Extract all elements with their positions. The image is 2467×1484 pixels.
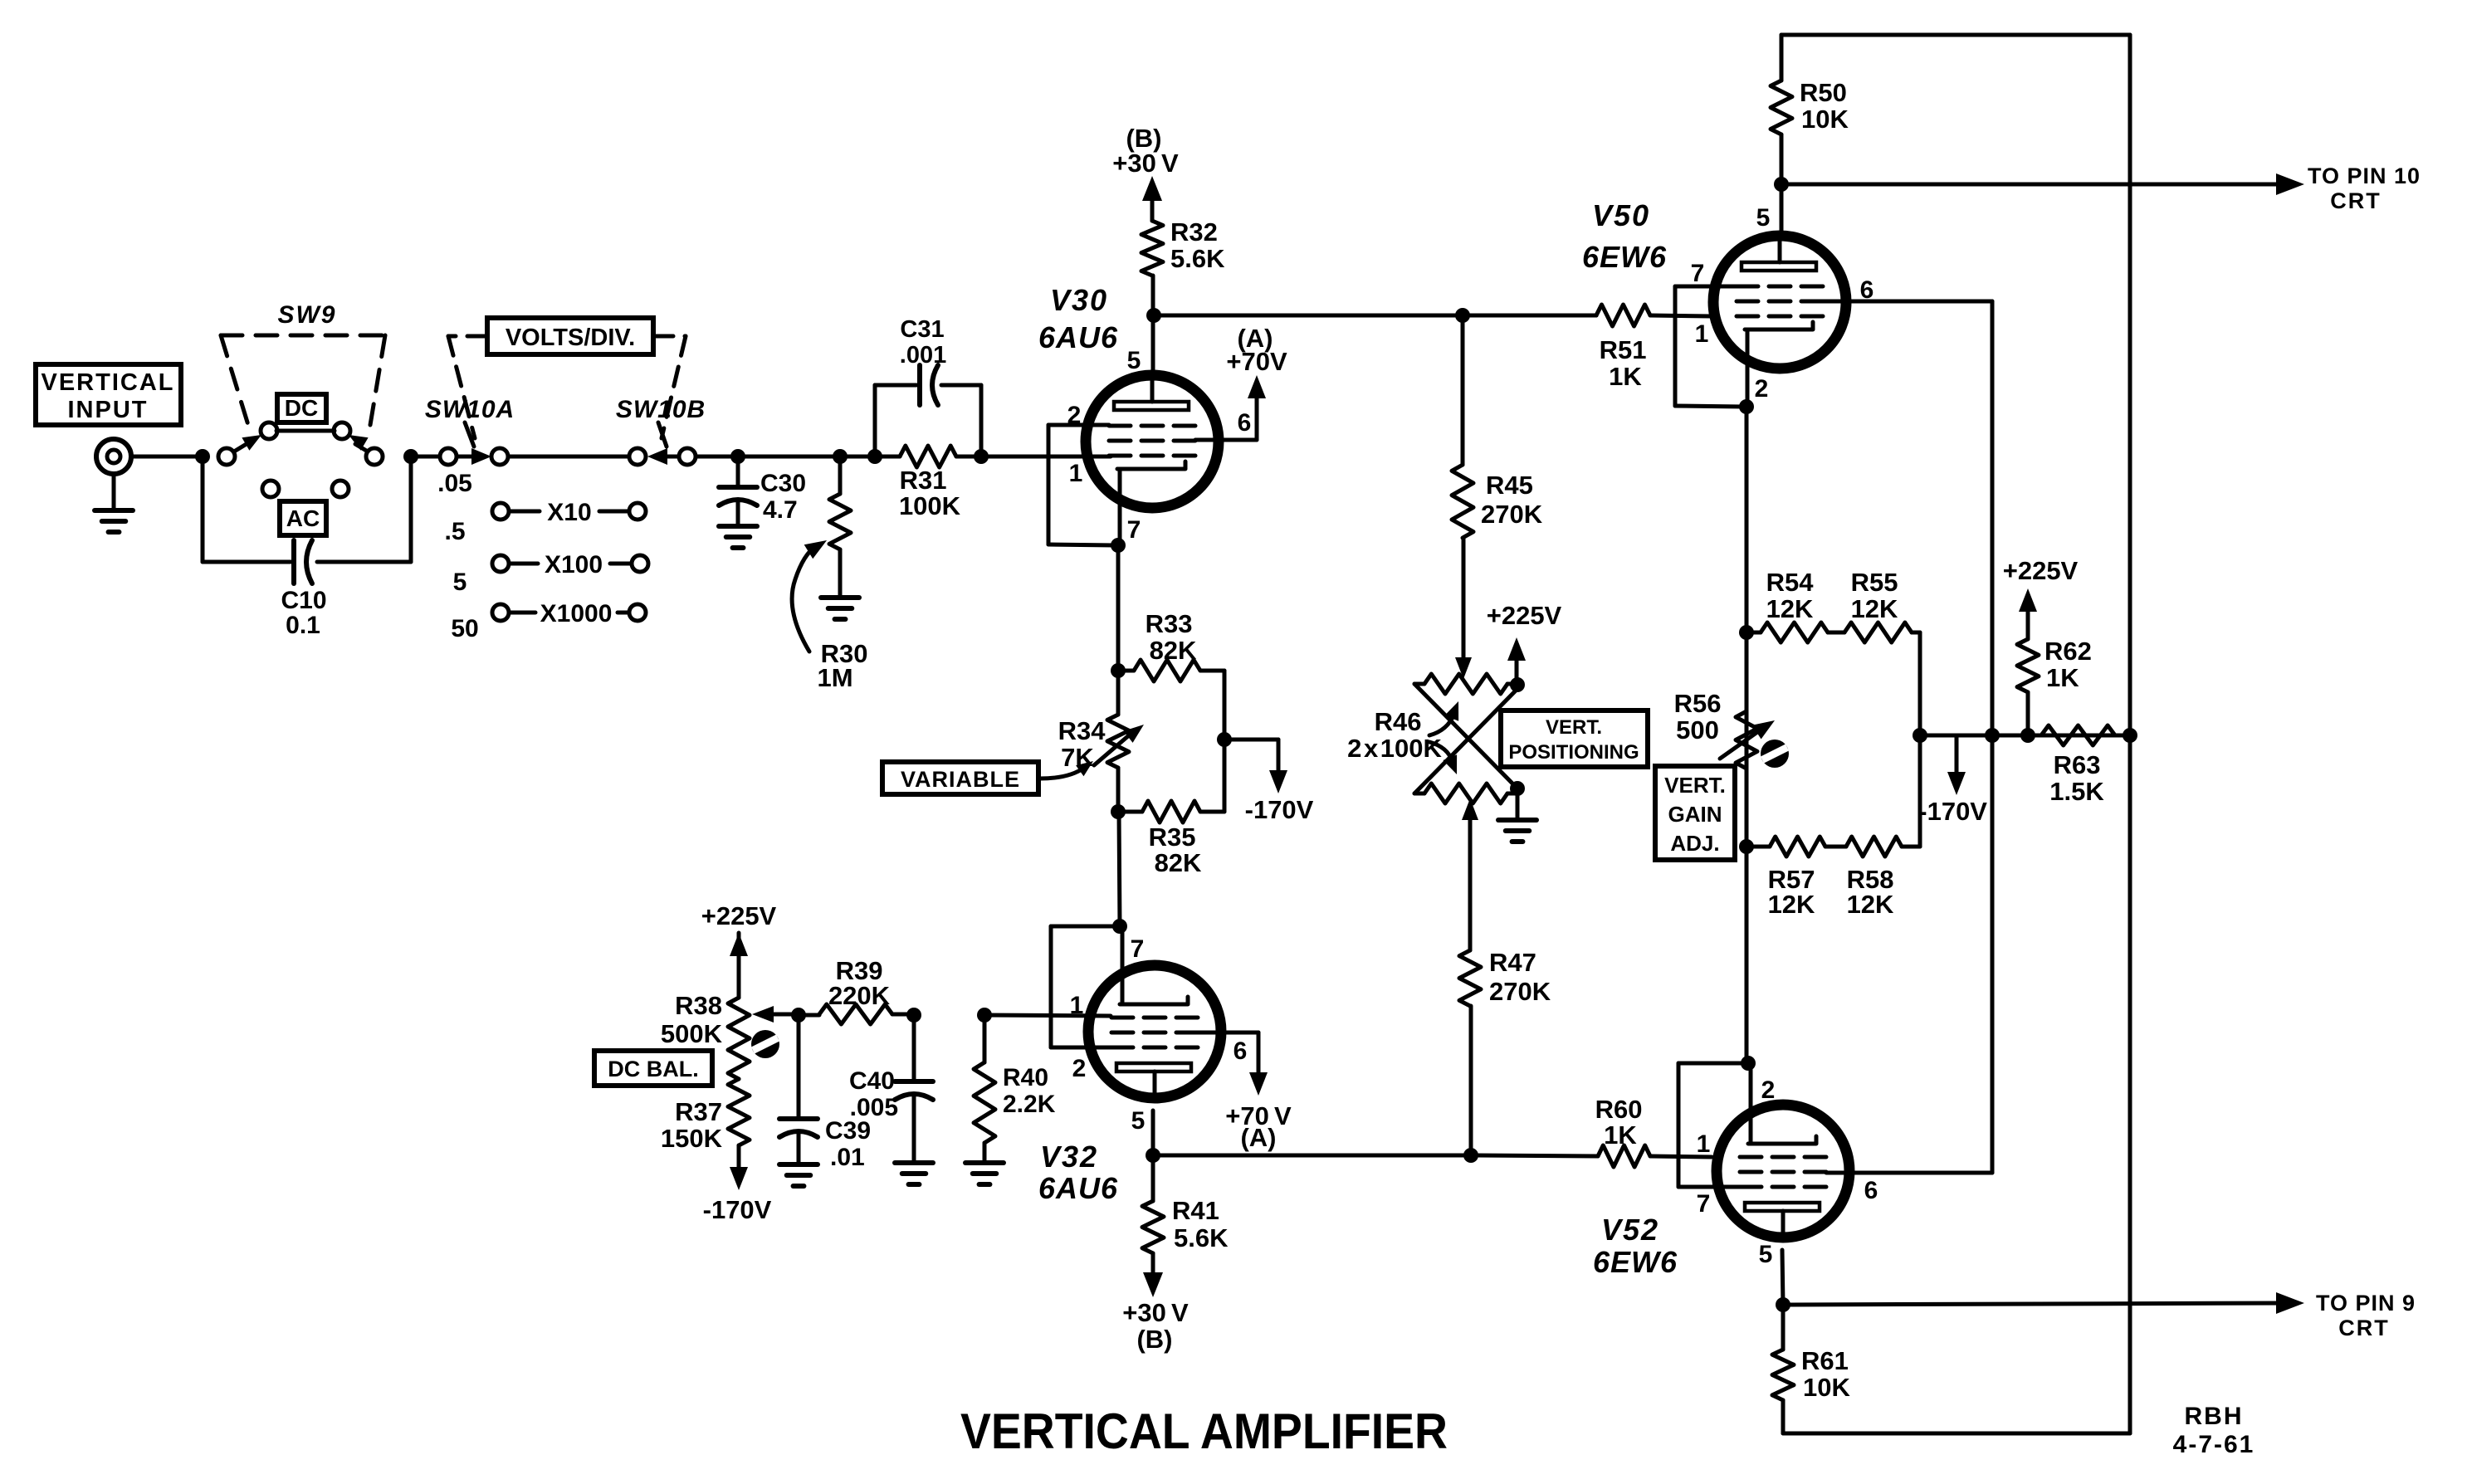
svg-text:R60: R60 (1595, 1095, 1643, 1124)
node R63 right on bus (2123, 728, 2137, 743)
svg-text:+30 V: +30 V (1112, 149, 1179, 178)
svg-text:VERT.: VERT. (1546, 716, 1602, 739)
switch SW10A contact left (440, 448, 457, 465)
svg-text:82K: 82K (1150, 636, 1197, 665)
svg-text:R56: R56 (1674, 689, 1722, 718)
R46 wiper arrows (1429, 714, 1454, 735)
wire to pin9 CRT (1783, 1303, 2284, 1305)
svg-text:C40: C40 (849, 1067, 895, 1095)
volts/div label box (487, 318, 653, 354)
svg-text:C30: C30 (760, 470, 806, 497)
svg-text:+70V: +70V (1226, 347, 1287, 376)
resistor R40 2.2K (983, 1015, 987, 1062)
vertical input label box (36, 364, 181, 425)
svg-text:5: 5 (1131, 1107, 1146, 1135)
svg-text:(B): (B) (1136, 1325, 1172, 1354)
capacitor C30 (736, 456, 740, 485)
DC label box (277, 394, 326, 422)
svg-text:1K: 1K (1604, 1120, 1637, 1150)
switch SW9 contact c (334, 422, 350, 439)
wire V52 plate to node (1782, 1250, 1783, 1305)
svg-text:5: 5 (1127, 347, 1141, 374)
wire SW10A to SW10B (509, 455, 628, 459)
svg-text:1: 1 (1697, 1130, 1711, 1158)
svg-text:SW10B: SW10B (616, 396, 706, 423)
svg-text:.5: .5 (444, 518, 465, 545)
svg-text:R31: R31 (900, 466, 947, 495)
screwdriver adjust R38 (751, 1030, 779, 1058)
svg-text:X100: X100 (545, 551, 603, 578)
wire DC path (276, 429, 335, 433)
svg-text:12K: 12K (1766, 594, 1814, 623)
ground below R46 (1516, 788, 1520, 818)
arrow +70V (A) lower (1249, 1072, 1268, 1096)
svg-text:5.6K: 5.6K (1170, 244, 1225, 273)
switch SW9 left arm (234, 440, 253, 452)
resistor R58 12K (1825, 845, 1846, 849)
node C31 right (974, 449, 989, 464)
svg-text:R47: R47 (1489, 948, 1536, 977)
resistor R56 500 variable (1736, 711, 1757, 769)
node R46 upper right (1510, 677, 1525, 692)
wire V32 node to R60 row (1153, 1154, 1471, 1158)
svg-text:R41: R41 (1172, 1196, 1219, 1225)
svg-text:6EW6: 6EW6 (1582, 240, 1667, 274)
node V52 pin2 top (1741, 1056, 1756, 1071)
tube V52 grid box (1678, 1062, 1745, 1066)
svg-text:2: 2 (1761, 1076, 1776, 1104)
svg-text:+30 V: +30 V (1122, 1298, 1189, 1327)
svg-text:220K: 220K (828, 981, 891, 1010)
svg-text:1M: 1M (817, 663, 852, 692)
wire R58 corner up (1918, 735, 1922, 847)
svg-text:CRT: CRT (2338, 1316, 2390, 1340)
capacitor C40 .005 (912, 1015, 916, 1079)
resistor R56 wiper arrow (1720, 730, 1760, 759)
arrow to +30V (B) top (1142, 176, 1162, 201)
svg-text:VERT.: VERT. (1664, 773, 1726, 798)
wire R35 node to V32 pin7 (1119, 812, 1120, 926)
wire V50 pin6 right (1823, 300, 1992, 304)
resistor R54 12K (1746, 631, 1761, 635)
switch SW10B pointer (658, 422, 667, 447)
capacitor C31 loop (873, 385, 877, 456)
svg-text:ADJ.: ADJ. (1670, 831, 1719, 856)
svg-text:R38: R38 (675, 991, 722, 1020)
resistor R38 wiper arrow (768, 1013, 797, 1017)
svg-text:R55: R55 (1851, 568, 1898, 597)
X100 contacts (492, 555, 509, 572)
switch SW10A pointer (465, 422, 474, 447)
tube V50 6EW6 (1713, 236, 1846, 369)
svg-text:2.2K: 2.2K (1003, 1091, 1056, 1118)
arrow +30V (B) bottom (1143, 1272, 1163, 1297)
svg-text:VERTICAL: VERTICAL (42, 369, 175, 396)
node SW9 right junction (403, 449, 418, 464)
node R45 top (1455, 308, 1470, 323)
svg-text:-170V: -170V (703, 1195, 772, 1224)
svg-text:R35: R35 (1149, 823, 1196, 852)
svg-text:.005: .005 (850, 1094, 898, 1121)
wire pin6 connector vertical (1991, 301, 1995, 1173)
wire R45 node to R51 (1463, 314, 1596, 318)
svg-text:R46: R46 (1375, 707, 1422, 736)
potentiometer R46 cross left-lower to right-upper (1414, 689, 1517, 793)
svg-text:GAIN: GAIN (1668, 802, 1722, 827)
svg-text:6: 6 (1238, 409, 1252, 437)
node R62 bottom (2020, 728, 2035, 743)
wire V30 plate row (1154, 314, 1463, 318)
wire to pin10 CRT (1781, 183, 2284, 187)
node R35 left (1111, 804, 1126, 819)
svg-text:5: 5 (1759, 1241, 1773, 1268)
wire R30 node to C31 node (840, 455, 875, 459)
svg-text:-170V: -170V (1918, 797, 1987, 826)
node R50 bottom (1774, 177, 1789, 192)
svg-text:+225V: +225V (2003, 556, 2079, 585)
svg-text:150K: 150K (661, 1124, 723, 1153)
arrow +225V mid (1515, 649, 1519, 684)
svg-text:C31: C31 (900, 316, 944, 343)
svg-text:270K: 270K (1489, 977, 1551, 1006)
svg-text:TO PIN 10: TO PIN 10 (2308, 164, 2421, 188)
svg-text:.001: .001 (900, 342, 946, 369)
svg-text:+225V: +225V (1487, 601, 1562, 630)
switch SW9 contact e (262, 481, 279, 497)
svg-text:VARIABLE: VARIABLE (901, 767, 1020, 792)
tube V50 grid box (1675, 285, 1737, 289)
resistor R35 82K (1118, 810, 1142, 814)
capacitor C39 .01 (797, 1015, 801, 1116)
svg-text:100K: 100K (899, 491, 961, 520)
svg-text:5: 5 (1756, 204, 1771, 232)
capacitor C10 (291, 540, 296, 583)
svg-text:2 x 100K: 2 x 100K (1347, 734, 1442, 763)
switch SW9 contact b (261, 422, 277, 439)
wire C31 node to V30 grid (981, 455, 1111, 459)
switch SW10B contact right (679, 448, 696, 465)
svg-text:6: 6 (1233, 1037, 1248, 1065)
svg-text:7: 7 (1691, 260, 1705, 287)
svg-text:6: 6 (1864, 1177, 1878, 1204)
node V50 cathode (1739, 399, 1754, 414)
wire C30 to R30 node (738, 455, 840, 459)
node mid -170V wire left (1913, 728, 1927, 743)
ground below C30 (719, 524, 757, 529)
tube V30 6AU6 (1086, 375, 1219, 508)
node C31 left (867, 449, 882, 464)
svg-text:4-7-61: 4-7-61 (2173, 1431, 2255, 1458)
resistor R38 500K pot (737, 933, 741, 998)
switch SW9 right arm (355, 444, 368, 452)
svg-text:1: 1 (1070, 992, 1084, 1019)
resistor R47 270K (1468, 810, 1473, 950)
svg-text:.01: .01 (830, 1144, 865, 1171)
arrow to pin9 (2276, 1292, 2304, 1314)
svg-text:12K: 12K (1768, 890, 1815, 919)
svg-text:500K: 500K (661, 1019, 723, 1048)
arrow -170V mid (1269, 770, 1287, 793)
wire right bus vertical (2128, 35, 2132, 1433)
svg-text:+225V: +225V (701, 901, 777, 930)
arrow R45 into R46 (1455, 657, 1472, 679)
svg-text:2: 2 (1072, 1055, 1087, 1082)
svg-text:10K: 10K (1803, 1373, 1850, 1402)
node C40 (906, 1008, 921, 1023)
svg-text:0.1: 0.1 (286, 612, 320, 639)
wire bottom bus (1783, 1432, 2130, 1436)
svg-text:V32: V32 (1040, 1140, 1098, 1174)
arrow to pin10 (2276, 173, 2304, 195)
wire V50 pin5 (1780, 184, 1784, 237)
svg-text:R40: R40 (1003, 1064, 1048, 1091)
wire -170V branch (1224, 738, 1278, 742)
switch SW10B contact left (629, 448, 646, 465)
wire mid to bus (1920, 734, 2130, 738)
ground below R40 (965, 1160, 1004, 1165)
svg-text:7: 7 (1131, 935, 1145, 963)
resistor R41 5.6K (1151, 1155, 1155, 1201)
svg-text:1.5K: 1.5K (2049, 777, 2104, 806)
ground at input connector (112, 474, 116, 508)
svg-text:R37: R37 (675, 1097, 722, 1126)
arrow +70V (A) upper (1248, 375, 1266, 398)
svg-text:R51: R51 (1600, 335, 1647, 364)
vert positioning label box (1501, 710, 1648, 767)
wire grid line to V32 (984, 1015, 1111, 1016)
svg-text:DC BAL.: DC BAL. (608, 1057, 699, 1081)
arrow -170V right (1955, 735, 1959, 783)
svg-text:R63: R63 (2054, 750, 2101, 779)
variable pointer arc (1040, 768, 1084, 779)
node R33 left (1111, 663, 1126, 678)
resistor R50 10K (1780, 35, 1784, 81)
node input junction (195, 449, 210, 464)
svg-text:R50: R50 (1800, 78, 1847, 107)
switch SW10A contact right (491, 448, 508, 465)
svg-text:4.7: 4.7 (763, 496, 798, 524)
wire cathode bus (1745, 407, 1749, 1063)
svg-text:12K: 12K (1851, 594, 1898, 623)
svg-text:VOLTS/DIV.: VOLTS/DIV. (506, 325, 635, 351)
svg-text:7: 7 (1697, 1190, 1711, 1218)
svg-text:SW9: SW9 (277, 301, 336, 329)
resistor R30 1M (838, 456, 843, 494)
node -170V branch (1217, 732, 1232, 747)
vert gain adj label box (1655, 766, 1735, 860)
wire R55 corner down (1918, 632, 1922, 735)
svg-text:TO PIN 9: TO PIN 9 (2316, 1291, 2416, 1316)
node R39 left / C39 (791, 1008, 806, 1023)
svg-text:50: 50 (451, 615, 478, 642)
arrow +225V left (730, 933, 748, 956)
node pin6 connector crossing (1985, 728, 2000, 743)
resistor R39 220K (799, 1013, 819, 1018)
dc bal label box (594, 1051, 712, 1086)
svg-text:INPUT: INPUT (68, 397, 149, 423)
wire cathode to R33 node (1116, 545, 1121, 666)
svg-text:SW10A: SW10A (425, 396, 515, 423)
svg-text:12K: 12K (1847, 890, 1894, 919)
svg-text:V52: V52 (1601, 1213, 1659, 1247)
svg-text:R33: R33 (1146, 609, 1193, 638)
svg-text:5: 5 (453, 569, 467, 596)
switch SW9 frame (dashed) (221, 334, 385, 338)
svg-text:R32: R32 (1170, 217, 1218, 247)
resistor R32 5.6K (1151, 276, 1155, 315)
svg-text:1K: 1K (2046, 663, 2079, 692)
node V32 pin7 (1112, 919, 1127, 934)
arrow +225V right (2019, 588, 2037, 612)
node R30 (833, 449, 848, 464)
svg-text:X10: X10 (547, 499, 591, 526)
tube V32 6AU6 (1088, 965, 1221, 1098)
node R47 bottom (1463, 1148, 1478, 1163)
arrow -170V left (730, 1167, 748, 1190)
node V30 cathode junction (1111, 538, 1126, 553)
svg-text:R45: R45 (1486, 471, 1533, 500)
wire V30 plate to R32 node (1151, 315, 1155, 375)
svg-text:X1000: X1000 (540, 600, 613, 627)
node R40 (977, 1008, 992, 1023)
svg-text:10K: 10K (1801, 105, 1849, 134)
wire V30 pin6 to +70V arrow (1195, 438, 1257, 442)
switch SW9 contact d (366, 448, 383, 465)
resistor R63 1.5K (2041, 725, 2115, 745)
arrow R47 into R46 (1462, 798, 1478, 820)
node R54 left (1739, 625, 1754, 640)
node R46 lower right (1510, 781, 1525, 796)
switch SW9 contact f (332, 481, 349, 497)
resistor R34 wiper arrow (1094, 735, 1129, 765)
ground below C40 (895, 1160, 933, 1165)
svg-text:DC: DC (285, 395, 318, 421)
svg-text:(A): (A) (1240, 1123, 1276, 1152)
resistor R37 150K (728, 1079, 750, 1145)
ground below R30 (821, 595, 859, 600)
svg-text:V30: V30 (1050, 283, 1108, 317)
wire junction to SW10A (411, 455, 440, 459)
svg-text:AC: AC (286, 505, 320, 531)
wire input to SW9 (131, 455, 196, 459)
switch SW10B wiper arrow (657, 455, 677, 459)
svg-text:V50: V50 (1592, 198, 1650, 232)
svg-text:7: 7 (1127, 516, 1141, 544)
wire AC loop left (201, 456, 205, 562)
X1000 contacts (492, 604, 509, 621)
tube V52 6EW6 (1717, 1105, 1849, 1237)
svg-text:1: 1 (1695, 320, 1709, 348)
X10 contacts (492, 503, 509, 520)
svg-text:R61: R61 (1801, 1346, 1849, 1375)
svg-text:R34: R34 (1058, 716, 1106, 745)
svg-text:-170V: -170V (1245, 795, 1314, 824)
svg-text:C10: C10 (281, 587, 326, 614)
node C30 (730, 449, 745, 464)
volts/div bracket left (dashed) (448, 334, 487, 339)
svg-text:2: 2 (1755, 375, 1769, 403)
node V52 pin5 (1776, 1297, 1790, 1312)
svg-text:5.6K: 5.6K (1174, 1223, 1229, 1252)
resistor R31 100K (875, 455, 900, 459)
svg-text:R54: R54 (1766, 568, 1815, 597)
svg-text:1K: 1K (1609, 362, 1642, 391)
resistor R45 270K (1461, 315, 1465, 465)
resistor R57 12K (1746, 845, 1770, 849)
volts/div bracket right (dashed) (653, 334, 686, 339)
svg-text:POSITIONING: POSITIONING (1508, 741, 1639, 764)
switch SW9 contact a (218, 448, 235, 465)
wire V52 pin6 right (1826, 1171, 1992, 1175)
resistor R33 82K (1118, 669, 1134, 673)
wire V32 plate to node (1151, 1111, 1155, 1155)
wire SW10B to C30 node (696, 455, 738, 459)
resistor R34 7K variable (1116, 671, 1121, 715)
resistor R61 10K (1781, 1305, 1786, 1350)
screwdriver adjust R56 (1761, 740, 1789, 768)
svg-text:270K: 270K (1481, 500, 1543, 529)
svg-text:VERTICAL AMPLIFIER: VERTICAL AMPLIFIER (960, 1403, 1448, 1459)
svg-text:6AU6: 6AU6 (1038, 1171, 1118, 1205)
switch SW10A wiper arrow (457, 455, 478, 459)
node V30 plate (1146, 308, 1161, 323)
R30 pointer arc (792, 546, 816, 652)
resistor R51 1K (1595, 314, 1599, 318)
resistor R62 1K (2026, 692, 2030, 735)
svg-text:RBH: RBH (2185, 1403, 2244, 1430)
tube V30 grid box (1048, 423, 1109, 427)
potentiometer R46 lower section (1414, 792, 1424, 796)
wire top bus (1781, 33, 2130, 37)
svg-text:6AU6: 6AU6 (1038, 320, 1118, 354)
input connector J1 (96, 439, 131, 474)
ground below C39 (779, 1162, 818, 1167)
svg-text:CRT: CRT (2330, 188, 2382, 213)
potentiometer R46 upper section (1414, 682, 1424, 686)
node R57 left (1739, 839, 1754, 854)
svg-text:82K: 82K (1155, 848, 1202, 877)
wire AC loop right (317, 560, 411, 564)
svg-text:1: 1 (1069, 460, 1083, 487)
wire R33 right corner down (1223, 671, 1227, 812)
node V32 pin5 (1146, 1148, 1160, 1163)
svg-text:R62: R62 (2044, 637, 2092, 666)
svg-text:6EW6: 6EW6 (1593, 1245, 1678, 1279)
resistor R60 1K (1598, 1145, 1650, 1167)
svg-text:500: 500 (1676, 715, 1719, 744)
resistor R55 12K (1828, 631, 1844, 635)
AC label box (280, 501, 326, 535)
tube V32 grid box (1051, 925, 1116, 929)
svg-text:.05: .05 (437, 470, 472, 497)
variable label box (882, 762, 1038, 794)
potentiometer R46 cross left-upper to right-lower (1414, 684, 1517, 788)
wire V32 pin6 to +70V arrow (1198, 1031, 1258, 1035)
